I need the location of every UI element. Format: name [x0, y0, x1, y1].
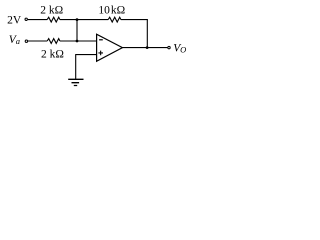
wire — [146, 20, 148, 48]
op-amp inverting pin minus sign — [99, 39, 103, 41]
resistor 2 kOhm (bottom) — [47, 39, 60, 44]
svg-text:10 kΩ: 10 kΩ — [98, 4, 125, 16]
output junction dot — [146, 46, 149, 49]
svg-text:2V: 2V — [7, 15, 22, 27]
svg-text:a: a — [16, 36, 20, 46]
ground — [68, 79, 83, 85]
op-amp U1 — [97, 34, 123, 61]
wire — [60, 40, 97, 42]
node B junction dot — [76, 40, 79, 43]
wire — [76, 20, 78, 41]
wire — [28, 40, 47, 42]
wire — [75, 54, 77, 79]
node A junction dot — [76, 18, 79, 21]
resistor 2 kOhm (top) — [47, 17, 60, 22]
terminal 2V — [25, 18, 27, 20]
svg-text:O: O — [180, 45, 186, 55]
wire — [122, 47, 167, 49]
svg-text:2 kΩ: 2 kΩ — [41, 49, 64, 61]
op-amp non-inverting pin plus sign — [98, 51, 103, 56]
terminal Vo — [168, 46, 170, 48]
svg-text:2 kΩ: 2 kΩ — [40, 4, 63, 16]
wire — [60, 19, 108, 21]
wire — [76, 54, 97, 56]
wire — [28, 19, 47, 21]
wire — [121, 19, 148, 21]
resistor 10 kOhm — [108, 17, 121, 22]
terminal Va — [25, 40, 27, 42]
